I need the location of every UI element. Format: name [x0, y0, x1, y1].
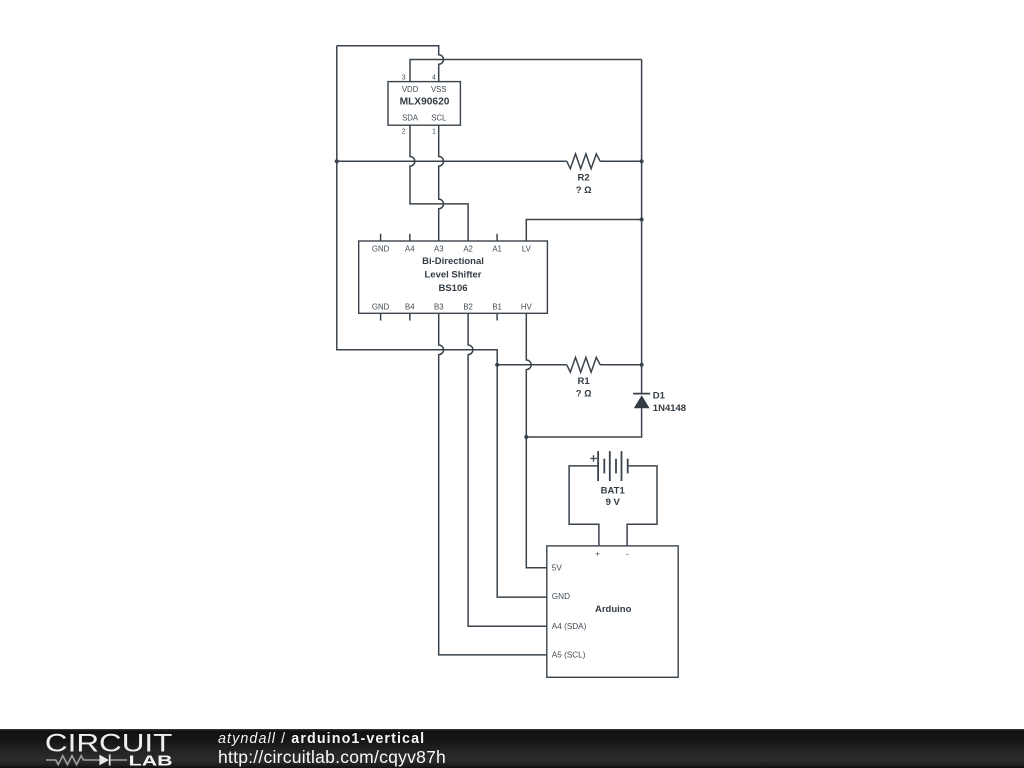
- svg-text:1N4148: 1N4148: [653, 403, 686, 414]
- IC U1 MLX90620 box: [388, 82, 460, 126]
- svg-text:3: 3: [402, 74, 406, 81]
- svg-text:Level Shifter: Level Shifter: [424, 269, 481, 280]
- svg-text:-: -: [626, 550, 629, 559]
- svg-text:? Ω: ? Ω: [576, 185, 592, 196]
- svg-text:B2: B2: [463, 302, 473, 311]
- wire: B2 to Arduino A4 (hop): [468, 313, 547, 626]
- svg-text:A4: A4: [405, 245, 415, 254]
- logo diode bar: [109, 754, 111, 765]
- svg-text:LAB: LAB: [129, 753, 173, 768]
- svg-text:? Ω: ? Ω: [576, 388, 592, 399]
- svg-text:BAT1: BAT1: [601, 486, 626, 497]
- svg-text:GND: GND: [372, 302, 390, 311]
- battery + polarity mark: [590, 455, 597, 462]
- svg-text:BS106: BS106: [438, 283, 467, 294]
- wire: right rail upper (to D1 cathode): [641, 60, 643, 394]
- wire: top loop from left rail to VSS pin (with hop): [337, 46, 444, 82]
- wire: battery negative lead to Arduino -: [627, 466, 657, 546]
- logo resistor-diode trace: [46, 756, 127, 765]
- svg-text:D1: D1: [653, 391, 666, 402]
- svg-text:SCL: SCL: [431, 114, 447, 123]
- svg-text:1: 1: [432, 129, 436, 136]
- module Arduino box: [547, 546, 678, 677]
- svg-text:VDD: VDD: [402, 85, 419, 94]
- svg-text:SDA: SDA: [402, 114, 419, 123]
- svg-text:A3: A3: [434, 245, 444, 254]
- svg-text:A1: A1: [492, 245, 502, 254]
- pin stub: shifter A4: [409, 234, 411, 241]
- diode D1 symbol: [633, 394, 650, 409]
- svg-text:4: 4: [432, 74, 436, 81]
- wire: R1 left segment from GND riser: [497, 364, 567, 366]
- svg-text:B3: B3: [434, 302, 444, 311]
- junction: left rail / bus: [335, 159, 339, 163]
- junction: R1 / right rail: [640, 363, 644, 367]
- footer title line: [218, 732, 425, 746]
- svg-text:MLX90620: MLX90620: [400, 97, 450, 108]
- wire: R1 right segment to right rail: [600, 364, 641, 366]
- svg-text:Arduino: Arduino: [595, 604, 632, 615]
- svg-text:2: 2: [402, 129, 406, 136]
- logo diode triangle: [99, 755, 109, 766]
- wire: B3 to Arduino A5 (hop): [439, 313, 547, 655]
- junction: bus / right rail: [640, 159, 644, 163]
- svg-text:A2: A2: [463, 245, 473, 254]
- svg-text:GND: GND: [552, 592, 570, 601]
- IC U2 level shifter box: [359, 241, 548, 313]
- svg-text:9 V: 9 V: [606, 497, 621, 508]
- wire: main bus left segment: [337, 160, 567, 162]
- resistor R2 zigzag: [567, 154, 600, 169]
- pin stub: shifter A1: [496, 234, 498, 241]
- svg-text:GND: GND: [372, 245, 390, 254]
- wire: battery positive lead to Arduino +: [569, 466, 599, 546]
- pin stub: shifter B1: [496, 313, 498, 320]
- svg-text:HV: HV: [521, 302, 533, 311]
- wire: LV pin to right rail: [526, 220, 641, 242]
- wire: SDA pin to A2 (hop at bus): [410, 125, 468, 241]
- svg-text:B4: B4: [405, 302, 415, 311]
- battery BAT1 plates: [598, 451, 628, 481]
- wire: D1 anode to 5V node: [526, 408, 641, 437]
- svg-text:R1: R1: [578, 376, 591, 387]
- pin stub: shifter B4: [409, 313, 411, 320]
- svg-text:Bi-Directional: Bi-Directional: [422, 256, 484, 267]
- junction: LV / right rail: [640, 217, 644, 221]
- svg-text:R2: R2: [578, 172, 590, 183]
- footer url line: [218, 749, 446, 767]
- svg-text:VSS: VSS: [431, 85, 447, 94]
- junction: D1 anode / 5V riser: [524, 435, 528, 439]
- wire: SCL pin to A3 (two hops): [439, 125, 444, 241]
- wire: left rail down and GND run to Arduino GND: [337, 46, 547, 597]
- resistor R1 zigzag: [567, 357, 600, 372]
- svg-text:LV: LV: [522, 245, 532, 254]
- svg-text:5V: 5V: [552, 563, 563, 572]
- svg-text:B1: B1: [492, 302, 502, 311]
- footer bar: [0, 729, 1024, 768]
- pin stub: shifter GND top: [380, 234, 382, 241]
- junction: GND riser / R1: [495, 363, 499, 367]
- wire: main bus right segment: [600, 160, 641, 162]
- wire: HV to Arduino 5V (hop at R1 wire): [526, 313, 547, 568]
- svg-text:A4 (SDA): A4 (SDA): [552, 622, 587, 631]
- svg-text:+: +: [595, 550, 600, 559]
- pin stub: shifter GND bottom: [380, 313, 382, 320]
- svg-text:A5 (SCL): A5 (SCL): [552, 650, 586, 659]
- wire: VDD riser to top rail: [410, 60, 642, 82]
